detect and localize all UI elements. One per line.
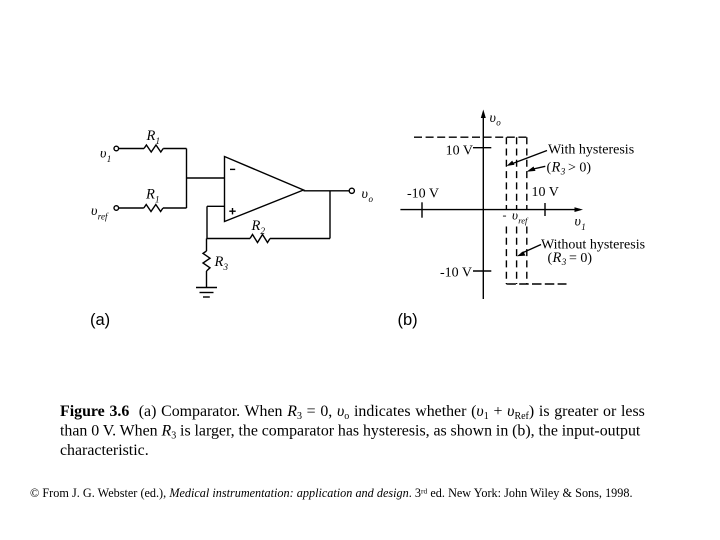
dashed vertical right hysteresis threshold (upper) bbox=[526, 137, 528, 209]
graph vo axis (vertical) bbox=[481, 110, 486, 300]
op-amp minus sign bbox=[230, 168, 235, 170]
svg-text:υ: υ bbox=[490, 111, 496, 126]
svg-text:1: 1 bbox=[155, 195, 160, 205]
label (b) bbox=[398, 311, 418, 329]
node vref input terminal bbox=[114, 206, 119, 211]
svg-text:o: o bbox=[496, 118, 501, 128]
svg-text:1: 1 bbox=[581, 222, 586, 232]
op-amp U1 bbox=[225, 157, 304, 222]
svg-text:= 0): = 0) bbox=[566, 251, 593, 266]
svg-text:characteristic.: characteristic. bbox=[60, 442, 149, 459]
dashed vertical middle -vref line (upper) bbox=[516, 137, 518, 209]
svg-text:Figure 3.6 (a) Comparator. Wh: Figure 3.6 (a) Comparator. When R3 = 0, … bbox=[60, 403, 645, 422]
svg-text:R: R bbox=[145, 187, 155, 203]
label (R3 > 0) bbox=[547, 160, 592, 177]
wire noninverting input down to feedback node bbox=[206, 206, 208, 238]
svg-text:υ: υ bbox=[575, 215, 581, 230]
svg-text:R: R bbox=[214, 254, 224, 270]
wire feedback node down to R3 bbox=[206, 239, 208, 252]
wire feedback vertical to output bbox=[329, 191, 331, 239]
resistor R1 (top) bbox=[144, 145, 163, 152]
svg-text:R: R bbox=[251, 218, 261, 234]
label R1 (bottom) bbox=[145, 187, 160, 205]
dashed line +10V saturation bbox=[414, 136, 527, 138]
svg-text:© From J. G. Webster (ed.), Me: © From J. G. Webster (ed.), Medical inst… bbox=[30, 486, 633, 500]
label vo axis bbox=[490, 111, 502, 128]
label Without hysteresis bbox=[541, 238, 645, 253]
label R3 bbox=[214, 254, 229, 272]
svg-text:-10 V: -10 V bbox=[440, 265, 472, 280]
tick +10V on vo axis bbox=[473, 147, 491, 149]
tick +10V on v1 axis bbox=[544, 203, 546, 216]
arrow to left threshold line bbox=[507, 151, 548, 167]
figure caption bbox=[60, 403, 645, 459]
label v1 axis bbox=[575, 215, 586, 233]
graph v1 axis (horizontal) bbox=[400, 207, 583, 212]
wire R1 bottom to junction bbox=[163, 207, 187, 209]
tick -10V on vo axis bbox=[473, 270, 491, 272]
wire R3 to ground bbox=[206, 271, 208, 288]
svg-text:-: - bbox=[503, 208, 507, 222]
wire junction to inverting input bbox=[187, 177, 225, 179]
svg-text:υ: υ bbox=[512, 208, 518, 223]
svg-text:> 0): > 0) bbox=[565, 161, 592, 176]
label vo bbox=[362, 187, 374, 204]
svg-text:o: o bbox=[369, 194, 374, 204]
dashed vertical middle -vref line (lower) bbox=[516, 227, 518, 285]
arrow to middle line (without hysteresis) bbox=[517, 245, 541, 257]
label (a) bbox=[90, 311, 110, 329]
svg-text:1: 1 bbox=[156, 136, 161, 146]
wire feedback left segment bbox=[207, 238, 250, 240]
svg-text:R: R bbox=[146, 128, 156, 144]
label 10 V (vo axis) bbox=[446, 144, 473, 159]
label v1 bbox=[100, 147, 111, 165]
resistor R2 bbox=[250, 235, 270, 243]
svg-text:-10 V: -10 V bbox=[407, 187, 439, 202]
svg-text:2: 2 bbox=[261, 226, 266, 236]
label R2 bbox=[251, 218, 266, 236]
label vref bbox=[91, 204, 109, 222]
arrow to right threshold line bbox=[527, 166, 546, 172]
dashed vertical left hysteresis threshold (lower) bbox=[505, 227, 507, 285]
label -vref node bbox=[503, 208, 530, 226]
wire noninverting input bbox=[207, 205, 225, 207]
label -10 V (v1 axis) bbox=[407, 187, 439, 202]
dashed vertical right hysteresis threshold (lower) bbox=[526, 227, 528, 285]
svg-text:R: R bbox=[551, 160, 561, 176]
resistor R1 (bottom) bbox=[144, 205, 163, 212]
wire junction vertical bbox=[186, 149, 188, 209]
label (R3 = 0) bbox=[548, 250, 593, 267]
tick -10V on v1 axis bbox=[421, 202, 423, 217]
svg-text:ref: ref bbox=[98, 212, 109, 222]
svg-text:1: 1 bbox=[107, 154, 112, 164]
ground bbox=[196, 288, 217, 298]
wire feedback right segment bbox=[270, 238, 330, 240]
node vo output terminal bbox=[349, 188, 354, 193]
svg-text:than 0 V. When R3 is larger, t: than 0 V. When R3 is larger, the compara… bbox=[60, 423, 641, 442]
svg-text:(a): (a) bbox=[90, 311, 110, 329]
label 10 V (v1 axis) bbox=[532, 185, 559, 200]
svg-text:υ: υ bbox=[362, 187, 368, 202]
node v1 input terminal bbox=[114, 146, 119, 151]
op-amp plus sign bbox=[229, 208, 235, 214]
svg-text:10 V: 10 V bbox=[532, 185, 559, 200]
attribution line bbox=[30, 486, 633, 500]
svg-text:(b): (b) bbox=[398, 311, 418, 329]
svg-text:R: R bbox=[552, 250, 562, 266]
svg-text:3: 3 bbox=[223, 262, 229, 272]
resistor R3 bbox=[203, 251, 210, 271]
svg-text:With hysteresis: With hysteresis bbox=[548, 143, 634, 158]
wire R1 to junction bbox=[163, 148, 186, 150]
dashed line -10V saturation bbox=[506, 283, 566, 285]
svg-text:10 V: 10 V bbox=[446, 144, 473, 159]
svg-text:ref: ref bbox=[518, 216, 529, 226]
wire vref terminal to R1 bbox=[119, 207, 144, 209]
label -10 V (vo axis) bbox=[440, 265, 472, 280]
svg-text:υ: υ bbox=[100, 147, 106, 162]
wire op-amp output bbox=[304, 190, 350, 192]
label With hysteresis bbox=[548, 143, 634, 158]
label R1 (top) bbox=[146, 128, 161, 146]
svg-text:υ: υ bbox=[91, 204, 97, 219]
wire v1 terminal to R1 bbox=[119, 148, 144, 150]
dashed vertical left hysteresis threshold (upper) bbox=[505, 137, 507, 209]
